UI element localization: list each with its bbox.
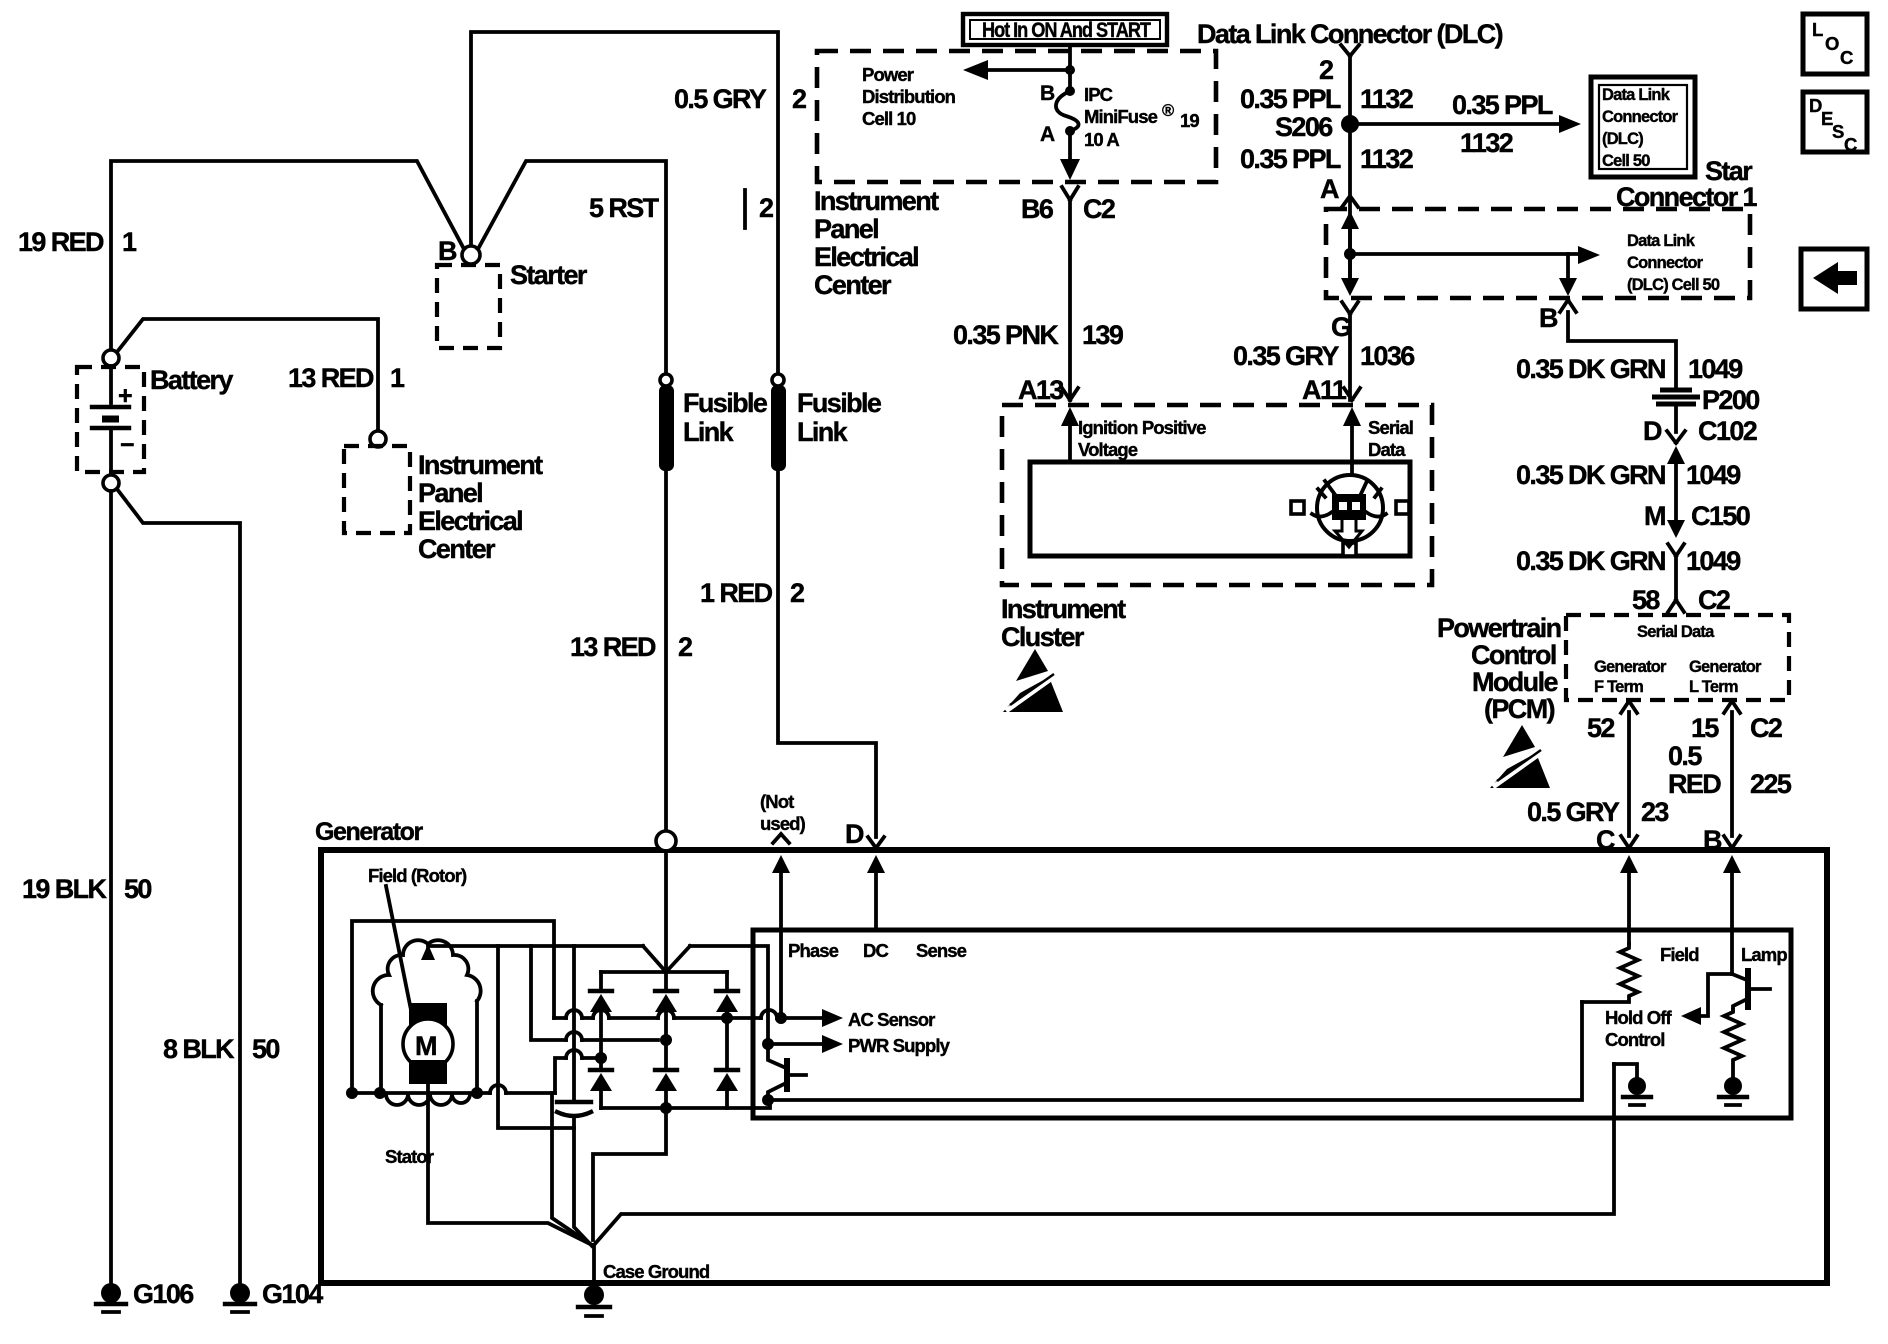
ground G106 [96, 1283, 126, 1312]
svg-text:2: 2 [792, 84, 806, 114]
svg-text:Connector: Connector [1602, 108, 1679, 126]
svg-text:C2: C2 [1083, 194, 1115, 224]
svg-text:B: B [438, 236, 457, 266]
svg-text:Cell 50: Cell 50 [1602, 152, 1650, 170]
svg-text:Case Ground: Case Ground [603, 1261, 710, 1282]
svg-text:A: A [1040, 123, 1055, 146]
svg-text:Cell 10: Cell 10 [862, 108, 916, 129]
wire G from star box to cluster [1348, 314, 1352, 400]
fusible link 2 terminal [772, 374, 784, 386]
svg-text:50: 50 [252, 1034, 279, 1064]
arrow AC Sensor [822, 1009, 843, 1027]
connector fork at DLC pin 2 [1341, 45, 1359, 56]
diode 1 top [590, 991, 612, 1070]
svg-text:Serial: Serial [1368, 417, 1413, 438]
svg-text:+: + [118, 382, 132, 410]
svg-text:Instrument: Instrument [814, 186, 939, 216]
wire branch right to regulator [690, 946, 768, 1044]
svg-text:0.35 DK GRN: 0.35 DK GRN [1516, 354, 1665, 384]
node BAT terminal circle on generator [656, 831, 676, 851]
svg-text:D: D [1643, 416, 1662, 446]
svg-text:Connector: Connector [1627, 254, 1704, 272]
field resistor R [1582, 944, 1638, 1002]
node B terminal circle on starter [462, 246, 480, 264]
svg-text:0.35 PPL: 0.35 PPL [1240, 84, 1341, 114]
svg-text:19 RED: 19 RED [18, 227, 104, 257]
instrument panel electrical center dashed box (battery area) [344, 446, 410, 533]
svg-text:2: 2 [759, 193, 773, 223]
svg-text:Field: Field [1660, 944, 1699, 965]
svg-text:Hold Off: Hold Off [1605, 1007, 1672, 1028]
svg-text:1049: 1049 [1686, 546, 1741, 576]
connector fork G [1342, 302, 1358, 314]
svg-text:MiniFuse: MiniFuse [1084, 106, 1158, 127]
svg-text:0.35 PPL: 0.35 PPL [1240, 144, 1341, 174]
svg-text:Link: Link [797, 417, 849, 447]
fusible link 2 body [771, 385, 786, 471]
svg-text:Data Link: Data Link [1602, 86, 1671, 104]
svg-text:G: G [1331, 312, 1351, 342]
svg-text:Data: Data [1368, 439, 1406, 460]
svg-text:Ignition Positive: Ignition Positive [1078, 417, 1206, 438]
svg-text:C2: C2 [1698, 585, 1730, 615]
wire 5 RST from starter B to fusible link [478, 161, 666, 375]
svg-text:Phase: Phase [788, 940, 839, 961]
svg-text:Cluster: Cluster [1001, 622, 1085, 652]
fusible link 1 body [659, 385, 674, 471]
connector fork C at generator edge [1621, 836, 1637, 848]
svg-text:Generator: Generator [315, 818, 424, 846]
svg-text:Fusible: Fusible [683, 388, 768, 418]
wire star box exit to serial data down arrow [1566, 254, 1570, 278]
wire star box to DLC cell 50 text arrow [1350, 252, 1586, 256]
svg-text:0.35 DK GRN: 0.35 DK GRN [1516, 460, 1665, 490]
svg-text:1049: 1049 [1688, 354, 1743, 384]
svg-text:Lamp: Lamp [1741, 944, 1787, 965]
svg-text:RED: RED [1668, 769, 1721, 799]
wire rectifier feed from BAT [664, 851, 668, 972]
svg-text:Center: Center [418, 534, 496, 564]
wire branch S206 to DLC cell 50 [1350, 122, 1565, 126]
arrow PWR Supply [822, 1035, 843, 1053]
wire 19 RED from battery positive to starter B [111, 161, 464, 350]
wire 0.5 RED 225 PCM L term to generator B [1730, 712, 1734, 836]
data link connector cell 50 solid box [1591, 77, 1695, 177]
connector fork B below star box [1560, 300, 1576, 312]
powertrain control module dashed box [1566, 615, 1789, 700]
rectifier bottom bus [601, 1100, 770, 1108]
svg-text:M: M [1644, 501, 1665, 531]
svg-text:AC Sensor: AC Sensor [848, 1009, 935, 1030]
svg-text:Generator: Generator [1689, 658, 1762, 676]
svg-text:0.5 GRY: 0.5 GRY [1527, 797, 1620, 827]
ground hold off [1623, 1077, 1651, 1105]
svg-text:139: 139 [1082, 320, 1124, 350]
case ground junction [592, 1245, 596, 1283]
ground lamp resistor [1719, 1077, 1747, 1105]
svg-text:Generator: Generator [1594, 658, 1667, 676]
voltage regulator box [753, 930, 1791, 1118]
svg-text:B: B [1040, 82, 1055, 105]
hold off ground stub [1614, 1064, 1637, 1078]
splice S206 [1341, 115, 1359, 133]
svg-text:(Not: (Not [760, 791, 794, 812]
svg-text:13 RED: 13 RED [288, 363, 374, 393]
svg-text:Serial Data: Serial Data [1637, 623, 1715, 641]
wire capacitor ground branch [498, 946, 574, 1128]
svg-text:1036: 1036 [1360, 341, 1415, 371]
stator bottom bus [352, 1091, 555, 1095]
grommet P200 [1652, 390, 1700, 404]
svg-text:1049: 1049 [1686, 460, 1741, 490]
svg-text:0.35 GRY: 0.35 GRY [1233, 341, 1339, 371]
svg-text:8 BLK: 8 BLK [163, 1034, 235, 1064]
svg-text:M: M [415, 1031, 436, 1061]
svg-text:13 RED: 13 RED [570, 632, 656, 662]
back arrow box [1801, 249, 1867, 309]
wire entry arrow into star box [1341, 211, 1359, 229]
Hot In ON And START double box [963, 14, 1167, 45]
wire rotor bottom to case ground [428, 1084, 592, 1245]
svg-text:C2: C2 [1750, 713, 1782, 743]
hold off control tap [1697, 974, 1732, 1016]
svg-text:Electrical: Electrical [418, 506, 522, 536]
ground case [578, 1285, 610, 1316]
rotor brush pad upper [409, 1003, 447, 1029]
wire 0.35 DK GRN to P200 [1568, 312, 1676, 388]
connector fork below power distribution box [1062, 187, 1078, 200]
diode 3 top [716, 991, 738, 1070]
wire phase 3 riser to rectifier column 1 [555, 1058, 601, 1093]
svg-text:Center: Center [814, 270, 892, 300]
connector C150 symbol [1667, 520, 1685, 538]
svg-text:2: 2 [790, 578, 804, 608]
svg-text:Data Link Connector (DLC): Data Link Connector (DLC) [1197, 19, 1503, 49]
DESC reference box [1803, 92, 1867, 152]
rotor brush pad lower [409, 1060, 447, 1084]
connector C102 symbol [1667, 408, 1685, 443]
wire phase 1 to rectifier column 3 and AC sensor [554, 1016, 826, 1020]
svg-text:Distribution: Distribution [862, 86, 956, 107]
wire from hot feed into fuse [1068, 45, 1072, 88]
svg-text:C102: C102 [1698, 416, 1757, 446]
rotor winding right side [475, 1001, 479, 1092]
connector fork F term below PCM [1621, 701, 1637, 713]
svg-text:19 BLK: 19 BLK [22, 874, 108, 904]
wire phase 2 branch to rectifier column 2 [531, 946, 658, 1040]
svg-text:C: C [1840, 47, 1853, 68]
wire 0.35 PNK 139 to instrument cluster [1068, 200, 1072, 400]
svg-text:(DLC) Cell 50: (DLC) Cell 50 [1627, 276, 1720, 294]
wire 0.35 DK GRN to C150 [1674, 462, 1678, 520]
svg-text:15: 15 [1691, 713, 1719, 743]
svg-text:B: B [1539, 303, 1558, 333]
svg-text:Powertrain: Powertrain [1437, 613, 1561, 643]
wire PWR supply from internal node [762, 1038, 774, 1050]
svg-text:G104: G104 [262, 1279, 323, 1309]
capacitor ground wire [574, 1117, 592, 1246]
wire 13 RED from battery feed to IPEC [117, 319, 378, 431]
rectifier top bus [601, 970, 727, 974]
entry arrow DC terminal [867, 855, 885, 873]
instrument cluster solid box [1030, 462, 1410, 556]
star connector 1 dashed box [1326, 209, 1750, 298]
capacitor [557, 1100, 591, 1104]
svg-text:0.35 DK GRN: 0.35 DK GRN [1516, 546, 1665, 576]
battery dashed box [77, 367, 144, 472]
svg-text:used): used) [760, 813, 806, 834]
svg-text:Fusible: Fusible [797, 388, 882, 418]
transistor T1 regulator [768, 1044, 806, 1100]
svg-text:Instrument: Instrument [1001, 594, 1126, 624]
instrument cluster dashed box [1002, 405, 1432, 585]
battery negative terminal [103, 475, 119, 491]
rotor motor M [403, 1019, 453, 1069]
wire 0.5 GRY 23 PCM F term to generator C [1627, 712, 1631, 836]
svg-text:S: S [1832, 121, 1844, 142]
svg-text:58: 58 [1632, 585, 1660, 615]
svg-text:Link: Link [683, 417, 735, 447]
svg-text:Panel: Panel [418, 478, 482, 508]
svg-text:5 RST: 5 RST [589, 193, 660, 223]
svg-text:G106: G106 [133, 1279, 194, 1309]
junction in star box [1344, 248, 1356, 260]
battery cell symbol [109, 366, 113, 403]
svg-text:Instrument: Instrument [418, 450, 543, 480]
fuse IPC MiniFuse 19 [1065, 86, 1075, 96]
svg-text:Data Link: Data Link [1627, 232, 1696, 250]
diode 2 bottom [655, 1070, 677, 1108]
svg-text:1: 1 [390, 363, 405, 393]
svg-text:2: 2 [1319, 55, 1333, 85]
ESD symbol PCM [1490, 725, 1550, 788]
svg-text:Control: Control [1471, 640, 1556, 670]
svg-text:Power: Power [862, 64, 914, 85]
svg-text:Sense: Sense [916, 940, 967, 961]
wire stator loop feed left [352, 921, 554, 1093]
entry arrow phase terminal [772, 855, 790, 873]
svg-text:1 RED: 1 RED [700, 578, 773, 608]
regulator internal rail to field resistor [762, 1094, 774, 1106]
LOC reference box [1803, 14, 1867, 74]
wire: top feed from starter B to 0.5 GRY [471, 32, 778, 380]
wire 13 RED 2 from fusible link 1 to generator BAT terminal [664, 471, 668, 835]
rotor winding arch [373, 940, 481, 1005]
wire hold off to case ground run [594, 1064, 1614, 1245]
svg-text:B6: B6 [1021, 194, 1054, 224]
wire stator bus to case ground [552, 1093, 592, 1245]
connector fork B at generator edge [1724, 836, 1740, 848]
connector fork D at generator edge [868, 837, 884, 848]
wire 19 BLK battery negative to G106 [109, 491, 113, 1285]
charge indicator lamp [1291, 475, 1409, 556]
svg-text:Field (Rotor): Field (Rotor) [368, 865, 467, 886]
svg-text:D: D [845, 819, 864, 849]
svg-text:225: 225 [1750, 769, 1792, 799]
svg-text:IPC: IPC [1084, 84, 1113, 105]
svg-text:A13: A13 [1018, 375, 1064, 405]
node terminal circle at IPEC [370, 431, 386, 447]
connector cavity mark not used [773, 834, 789, 843]
svg-text:L: L [1812, 19, 1823, 40]
connector fork at PCM box edge [1668, 600, 1684, 612]
entry arrow field C terminal [1620, 855, 1638, 873]
diode 1 bottom [590, 1070, 612, 1108]
svg-text:®: ® [1162, 102, 1174, 120]
rotor winding apex [421, 944, 435, 960]
svg-text:Electrical: Electrical [814, 242, 918, 272]
transistor T2 lamp driver [1732, 968, 1770, 1010]
svg-text:1: 1 [122, 227, 137, 257]
entry arrow lamp B terminal [1723, 855, 1741, 873]
wire top bus V arms [643, 946, 690, 972]
svg-text:F Term: F Term [1594, 678, 1643, 696]
svg-text:50: 50 [124, 874, 151, 904]
capacitor feed wire [572, 946, 576, 1099]
wire star box exit down arrow at pin A column [1348, 254, 1352, 278]
wire serial data entry arrow [1343, 407, 1361, 426]
svg-text:O: O [1825, 33, 1839, 54]
power distribution dashed box [817, 51, 1216, 182]
svg-text:2: 2 [678, 632, 692, 662]
svg-text:0.5: 0.5 [1668, 741, 1702, 771]
wire 8 BLK battery negative to G104 [117, 489, 240, 1285]
diode 2 top [655, 991, 677, 1070]
wire 0.35 DK GRN to PCM [1674, 556, 1678, 600]
ground G104 [225, 1283, 255, 1312]
svg-text:(DLC): (DLC) [1602, 130, 1643, 148]
svg-text:(PCM): (PCM) [1484, 694, 1555, 724]
battery positive terminal [103, 350, 119, 366]
svg-text:DC: DC [863, 940, 888, 961]
starter dashed box [437, 265, 500, 348]
svg-text:P200: P200 [1702, 385, 1759, 415]
rotor winding bottom scallops [386, 1094, 470, 1105]
connector fork A13 at cluster edge [1062, 388, 1078, 400]
svg-text:PWR Supply: PWR Supply [848, 1035, 951, 1056]
wire fuse output with arrow at box edge [1068, 131, 1072, 170]
wire arrow to power distribution [975, 68, 1070, 72]
connector chevron above star box [1342, 196, 1358, 207]
connector fork L term below PCM [1724, 701, 1740, 713]
svg-text:A11: A11 [1302, 375, 1347, 405]
generator outer box [321, 850, 1827, 1283]
svg-text:Voltage: Voltage [1078, 439, 1138, 460]
svg-text:S206: S206 [1275, 112, 1333, 142]
svg-text:Starter: Starter [510, 260, 588, 290]
wire ignition positive voltage entry arrow [1061, 407, 1079, 426]
pointer line field rotor [386, 886, 412, 1015]
svg-text:0.35 PPL: 0.35 PPL [1452, 90, 1553, 120]
lamp resistor R [1724, 1010, 1742, 1078]
svg-text:10 A: 10 A [1084, 129, 1119, 150]
svg-text:19: 19 [1180, 110, 1199, 131]
svg-text:Battery: Battery [150, 365, 233, 395]
diode 3 bottom [716, 1070, 738, 1108]
svg-text:C150: C150 [1691, 501, 1750, 531]
svg-text:Panel: Panel [814, 214, 878, 244]
wire 1 RED 2 from fusible link 2 to generator D terminal [778, 471, 876, 837]
wire 0.35 PPL 1132 from DLC to S206 [1348, 56, 1352, 284]
svg-text:52: 52 [1587, 713, 1614, 743]
fusible link 1 terminal [660, 374, 672, 386]
svg-text:Hot In ON And START: Hot In ON And START [982, 19, 1151, 42]
svg-text:A: A [1320, 174, 1339, 204]
svg-text:1132: 1132 [1360, 144, 1413, 174]
svg-text:Module: Module [1472, 667, 1558, 697]
svg-text:1132: 1132 [1360, 84, 1413, 114]
ESD symbol instrument cluster [1003, 649, 1063, 712]
svg-text:0.35 PNK: 0.35 PNK [953, 320, 1059, 350]
svg-text:23: 23 [1641, 797, 1669, 827]
svg-text:−: − [120, 431, 134, 459]
wire rotor apex feed line [428, 946, 643, 947]
wire rectifier bottom to case ground [593, 1108, 666, 1240]
connector fork A11 at cluster edge [1344, 388, 1360, 400]
rotor winding left side [379, 1005, 383, 1092]
svg-text:Control: Control [1605, 1029, 1664, 1050]
svg-text:C: C [1844, 134, 1857, 155]
svg-text:L Term: L Term [1689, 678, 1738, 696]
svg-text:0.5 GRY: 0.5 GRY [674, 84, 767, 114]
svg-text:1132: 1132 [1460, 128, 1513, 158]
